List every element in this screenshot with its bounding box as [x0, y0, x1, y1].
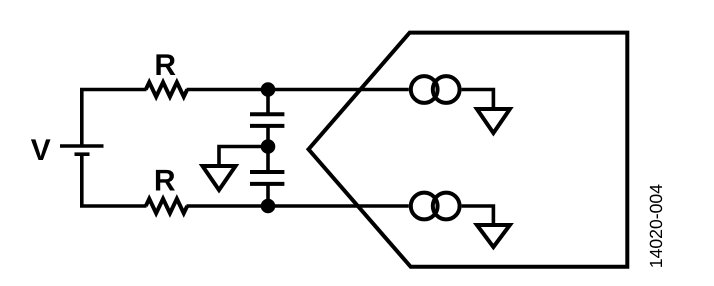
wire mid node to capacitor C2: [266, 147, 270, 173]
wire R2 to bottom current source: [187, 204, 409, 208]
capacitor C2: [250, 172, 284, 184]
wire bottom current source to ground: [462, 206, 494, 223]
voltage source V (battery plates): [60, 146, 104, 154]
ground (middle): [203, 166, 236, 190]
wire top current source to ground: [462, 90, 494, 108]
wire C1 to mid node: [266, 126, 270, 147]
wire R1 to top current source: [187, 88, 409, 92]
figure number 14020-004: [650, 185, 662, 267]
wire C2 to bottom node: [266, 184, 270, 206]
label V: [31, 139, 51, 160]
amplifier input stage outline (chevron box): [309, 33, 628, 267]
wire top dot to capacitor C1: [266, 90, 270, 115]
current source bottom (double circles): [411, 193, 460, 220]
ground (top right): [477, 109, 510, 133]
wire battery bottom to resistor R2: [82, 154, 147, 206]
label R (top): [156, 54, 175, 75]
node junction mid (dot): [261, 139, 276, 154]
ground (bottom right): [477, 225, 510, 247]
capacitor C1: [250, 114, 284, 126]
resistor R2 (bottom): [146, 199, 187, 213]
current source top (double circles): [411, 76, 460, 103]
label R (bottom): [156, 170, 175, 191]
node junction bottom (dot): [261, 199, 276, 214]
node junction top (dot): [261, 82, 276, 97]
wire battery top to resistor R1: [82, 90, 147, 147]
resistor R1 (top): [146, 82, 187, 96]
wire mid node to ground: [219, 147, 268, 166]
